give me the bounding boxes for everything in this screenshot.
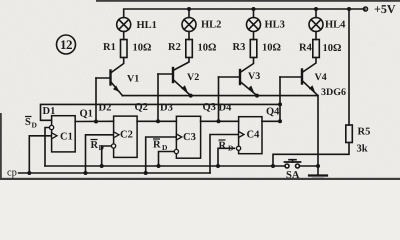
svg-text:Q3: Q3 [203, 102, 216, 113]
svg-text:10Ω: 10Ω [198, 43, 217, 54]
svg-text:V3: V3 [248, 71, 260, 82]
svg-text:D: D [99, 143, 105, 152]
svg-text:D: D [162, 143, 168, 152]
svg-text:R: R [219, 141, 227, 152]
svg-text:HL4: HL4 [325, 20, 346, 31]
svg-text:C3: C3 [183, 132, 196, 143]
svg-text:D3: D3 [160, 103, 173, 114]
svg-text:10Ω: 10Ω [133, 43, 152, 54]
svg-text:R: R [91, 140, 99, 151]
svg-text:3DG6: 3DG6 [321, 87, 346, 98]
svg-text:10Ω: 10Ω [262, 43, 281, 54]
svg-text:V4: V4 [315, 72, 327, 83]
svg-text:10Ω: 10Ω [323, 43, 342, 54]
svg-text:C4: C4 [247, 130, 261, 141]
svg-text:R1: R1 [103, 42, 116, 53]
svg-text:D: D [32, 121, 38, 130]
svg-text:HL1: HL1 [137, 20, 157, 31]
svg-text:V2: V2 [187, 72, 199, 83]
svg-text:R: R [153, 140, 161, 151]
svg-text:R3: R3 [233, 42, 246, 53]
svg-text:+5V: +5V [374, 2, 396, 16]
svg-text:HL3: HL3 [265, 20, 285, 31]
svg-text:D2: D2 [99, 103, 112, 114]
svg-text:R2: R2 [168, 42, 181, 53]
svg-text:Q4: Q4 [266, 107, 280, 118]
svg-text:cp: cp [7, 168, 17, 179]
svg-text:D: D [228, 144, 234, 153]
svg-text:3k: 3k [357, 144, 368, 155]
svg-text:Q2: Q2 [135, 102, 148, 113]
svg-text:HL2: HL2 [201, 20, 221, 31]
svg-text:D4: D4 [219, 103, 233, 114]
svg-text:S: S [25, 117, 31, 128]
svg-text:R5: R5 [358, 127, 371, 138]
svg-text:12: 12 [60, 37, 72, 52]
svg-text:R4: R4 [299, 43, 313, 54]
svg-text:V1: V1 [127, 74, 139, 85]
svg-text:C2: C2 [120, 130, 133, 141]
svg-text:C1: C1 [60, 132, 73, 143]
svg-text:Q1: Q1 [80, 109, 93, 120]
svg-text:D1: D1 [43, 106, 56, 117]
